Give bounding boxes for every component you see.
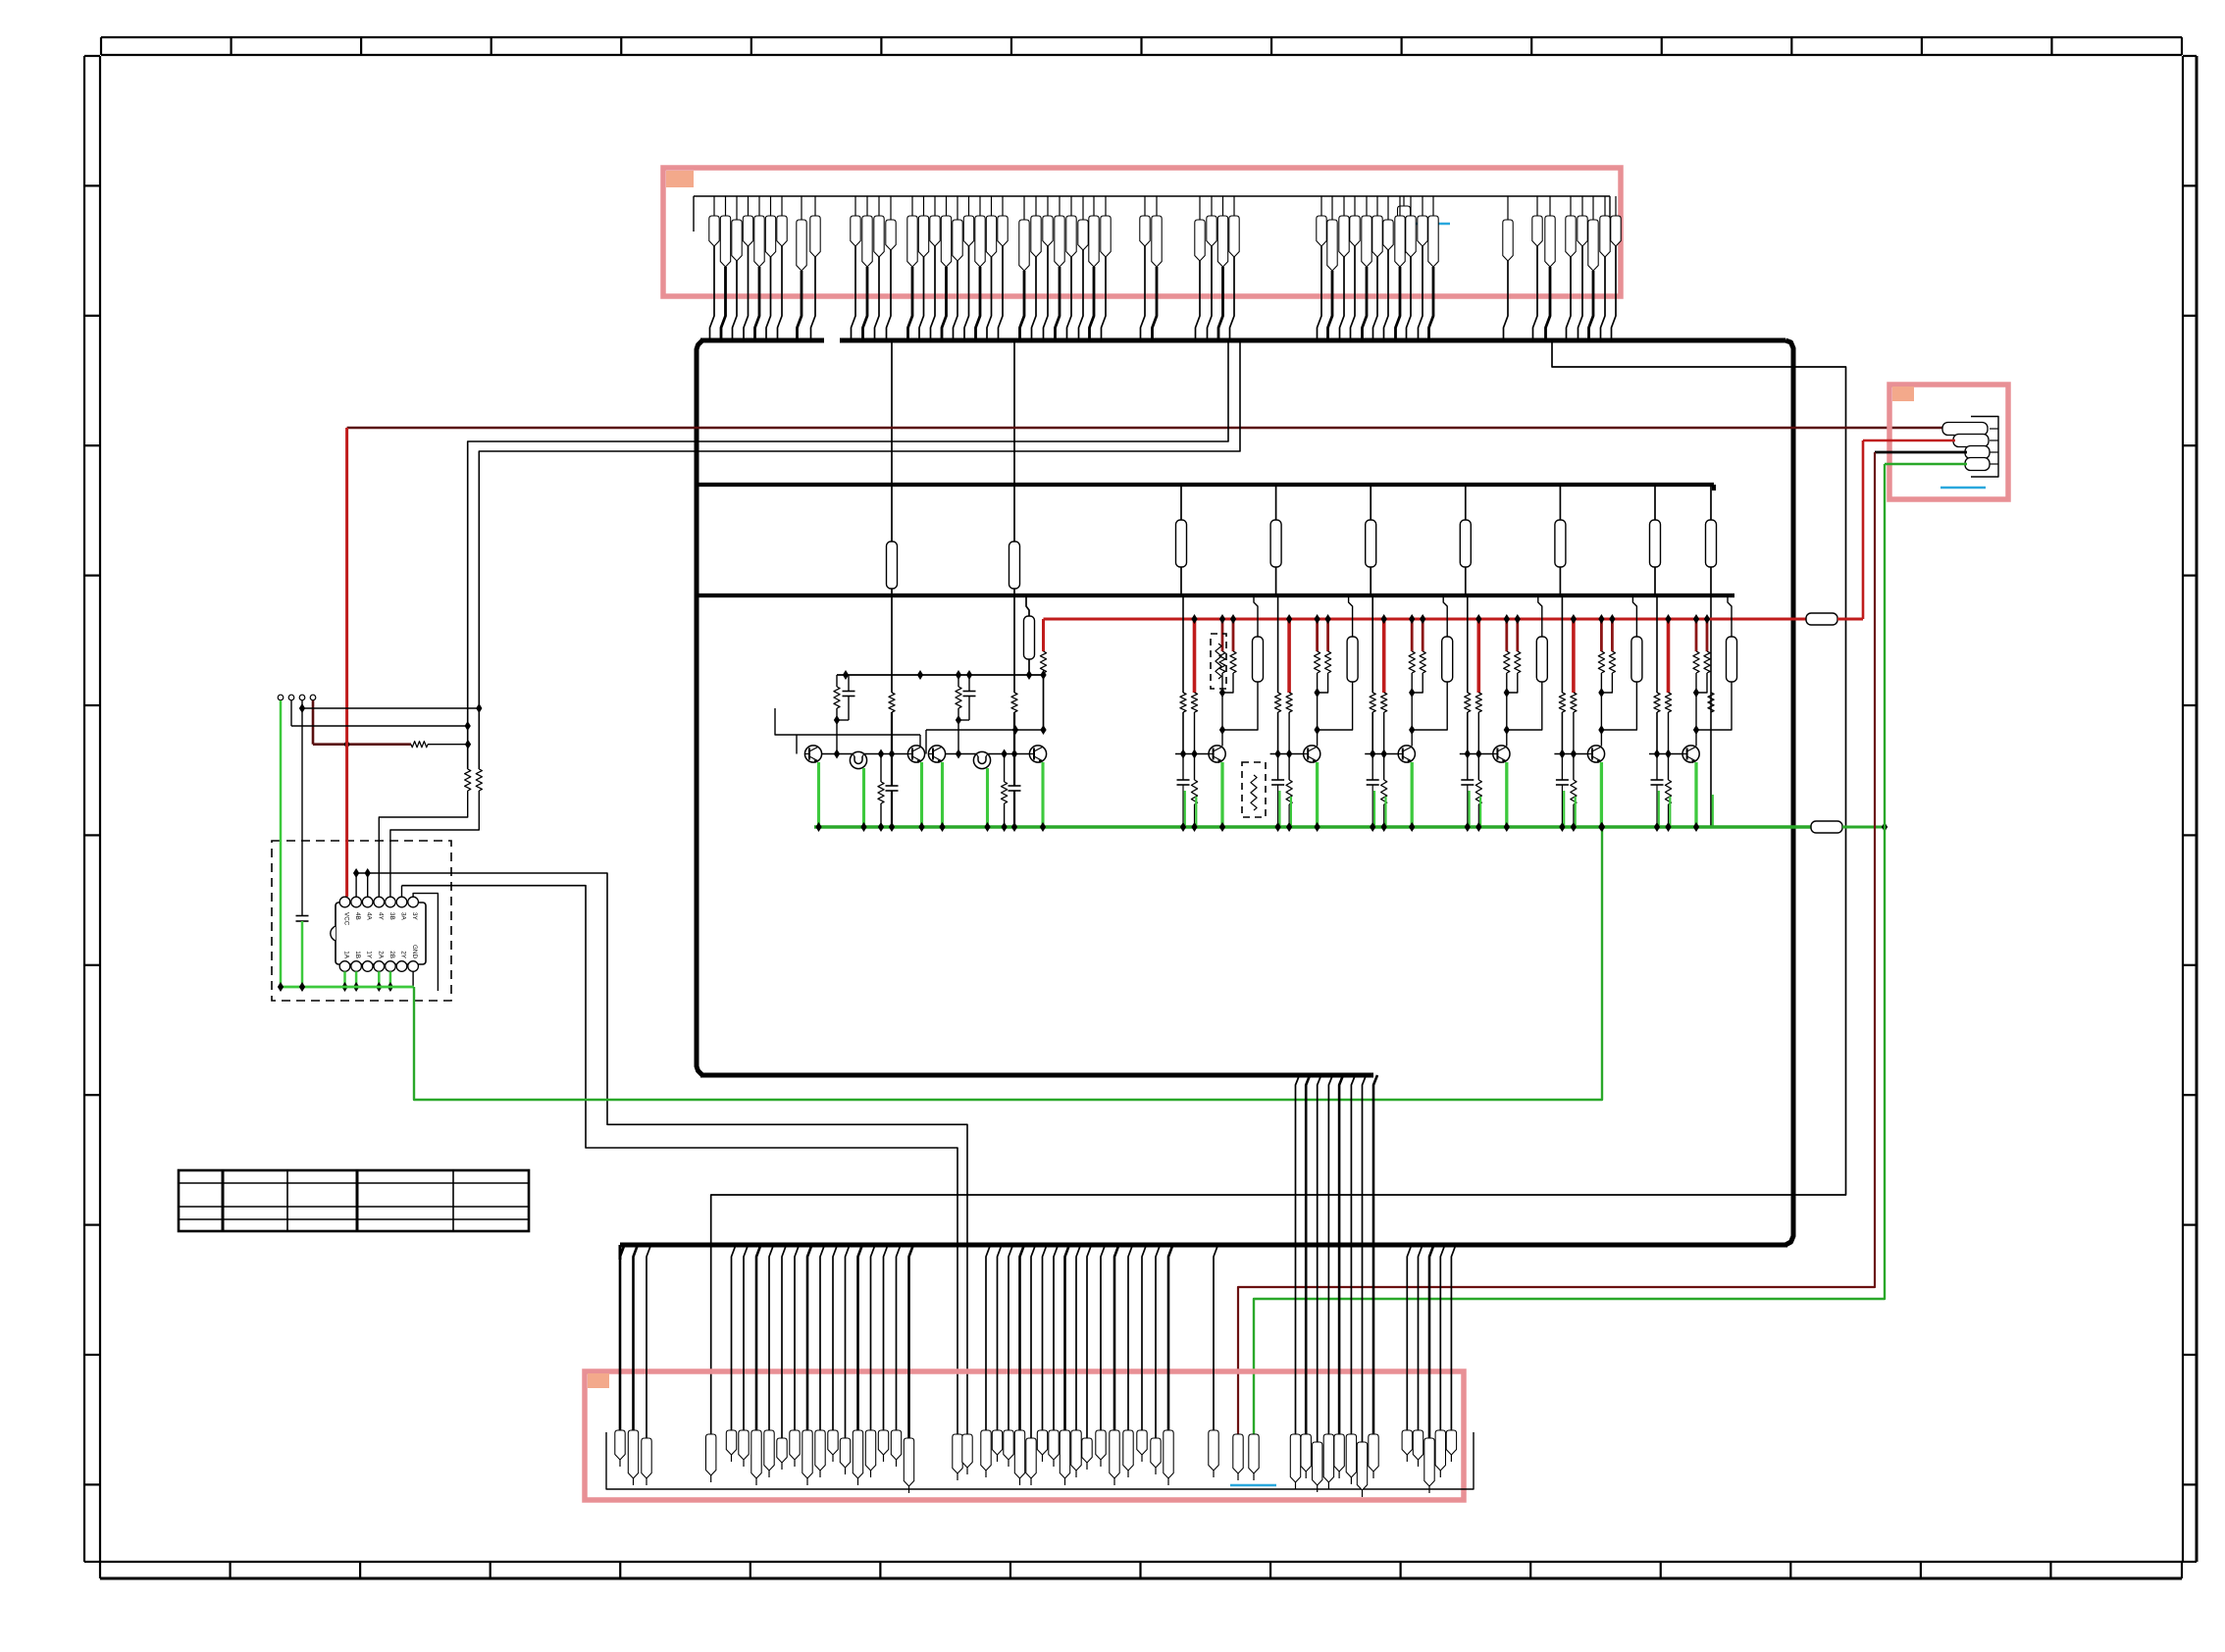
svg-text:3A: 3A <box>400 912 407 921</box>
svg-text:3Y: 3Y <box>411 912 418 921</box>
svg-text:4Y: 4Y <box>377 912 384 921</box>
svg-text:GND: GND <box>411 945 418 958</box>
svg-text:VCC: VCC <box>343 912 350 926</box>
svg-text:2Y: 2Y <box>400 951 407 959</box>
svg-text:4A: 4A <box>366 912 373 921</box>
svg-text:4B: 4B <box>354 912 361 920</box>
svg-text:1Y: 1Y <box>366 951 373 959</box>
svg-text:1B: 1B <box>354 951 361 958</box>
svg-text:1A: 1A <box>343 951 350 959</box>
svg-text:3B: 3B <box>388 912 395 920</box>
svg-text:2B: 2B <box>388 951 395 958</box>
svg-text:2A: 2A <box>377 951 384 959</box>
